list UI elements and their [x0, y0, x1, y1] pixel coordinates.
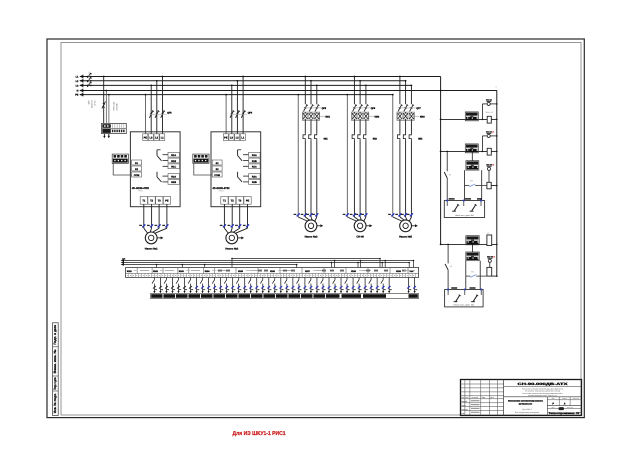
svg-text:Насос вкл. уров. №1: Насос вкл. уров. №1 [455, 214, 475, 217]
svg-text:PE: PE [165, 200, 169, 203]
drive U1 relay outputs R1A R1B R1C [168, 152, 180, 168]
svg-text:Разраб.: Разраб. [461, 400, 468, 403]
wire PE feed to drive U2 [225, 94, 227, 134]
svg-text:КМ1: КМ1 [325, 115, 330, 118]
transformer unit YATP terminal block [102, 123, 127, 133]
device coil K5 rung 5 [480, 267, 497, 277]
svg-text:центральное: центральное [519, 403, 533, 406]
drive U1 control terminals S1 S2 COM [132, 160, 142, 177]
bus L1 [76, 75, 441, 79]
level switch box SL1 (pump on level) [444, 198, 484, 217]
svg-text:COM: COM [134, 174, 140, 177]
motor M2 (pump 2) [226, 232, 238, 244]
wire terminal block to COM drive U1 [113, 163, 131, 175]
svg-text:КК2: КК2 [373, 138, 378, 141]
motor leads branch КМ1 [298, 217, 317, 221]
drive U2 relay contact 1 [238, 150, 249, 167]
terminal block XT9 rung 5 [466, 244, 479, 261]
svg-text:автоматизированный. Принц. эл.: автоматизированный. Принц. эл. [528, 394, 557, 397]
control feed line 1 with arrow [121, 259, 414, 262]
wire L3 feed to drive U1 [150, 85, 152, 134]
svg-text:ХШ3: ХШ3 [179, 270, 185, 273]
svg-text:ХШ6: ХШ6 [270, 270, 276, 273]
svg-text:КМ: КМ [471, 270, 474, 273]
level switch box SL2 (pump off level) [445, 287, 484, 307]
drive U1 model label [132, 187, 150, 193]
terminal block XT7 rung 3 [466, 151, 479, 171]
wire PE drop for motor branch КМ2 [346, 94, 348, 217]
sheet drawing frame (outer border) [47, 39, 584, 418]
svg-text:220/24В: 220/24В [116, 103, 119, 111]
svg-text:JD-GD20-4T22: JD-GD20-4T22 [132, 187, 150, 190]
field wires below terminal strip [152, 278, 417, 294]
svg-text:R1B: R1B [171, 160, 176, 163]
svg-text:R2B: R2B [252, 181, 257, 184]
label motor of branch КМ1 [305, 236, 318, 239]
svg-text:QF7: QF7 [416, 107, 421, 110]
svg-text:Подп. и дата: Подп. и дата [53, 377, 57, 389]
label QF2 rotated [88, 100, 97, 108]
ground arrow at motor of branch КМ2 [366, 224, 372, 227]
svg-text:JD-GD20-4T22: JD-GD20-4T22 [212, 187, 230, 190]
drive U1 input terminals PE L3 L2 L1 [143, 134, 165, 141]
drive U1 output terminals T1 T2 T3 PE [140, 197, 170, 205]
svg-text:QF3: QF3 [167, 111, 172, 114]
svg-text:Технопроммаш ОГ: Технопроммаш ОГ [548, 411, 581, 415]
motor cable wires from drive U2 [224, 204, 247, 233]
svg-text:Р: Р [552, 403, 554, 406]
motor leads branch КМ2 [347, 217, 366, 221]
svg-text:Насос №3: Насос №3 [305, 236, 318, 239]
drive U1 relay contact 2 [157, 172, 168, 182]
label motor of branch КМ2 [356, 236, 364, 239]
circuit breaker QF1 (main switch) [87, 72, 92, 87]
circuit breaker QF5 [304, 104, 327, 111]
phase wires for branch КМ2 [352, 76, 367, 105]
svg-text:QF6: QF6 [371, 107, 376, 110]
wire PE tap to lighting transformer [108, 94, 110, 124]
variable frequency drive U1 [130, 132, 180, 207]
svg-text:ХШ7: ХШ7 [305, 270, 311, 273]
svg-text:Пров.: Пров. [461, 404, 466, 407]
device coil K2 rung 2 [487, 148, 497, 155]
svg-text:ХШ1: ХШ1 [127, 270, 133, 273]
svg-text:R1C: R1C [252, 166, 257, 169]
svg-text:R1B: R1B [252, 160, 257, 163]
motor of branch КМ2 [354, 220, 366, 232]
device coil K4 rung 4 [487, 232, 492, 246]
contactor КМ2 [351, 112, 379, 120]
label motor M2 [225, 248, 238, 251]
wire markers (blue) on motor cable U1 [139, 224, 168, 227]
svg-text:ХШ9: ХШ9 [396, 270, 402, 273]
wire L2 feed to drive U2 [237, 80, 239, 134]
bus L3 [76, 84, 412, 88]
phase wires for branch КМ1 [303, 76, 318, 105]
wire markers (blue) on motor cable U2 [220, 224, 249, 227]
svg-text:Р1: Р1 [449, 173, 451, 176]
svg-text:Насос №2: Насос №2 [225, 248, 238, 251]
svg-text:COM: COM [214, 174, 220, 177]
svg-text:Для ШКУ-1: Для ШКУ-1 [522, 408, 532, 411]
svg-text:Исполнение автоматизированное: Исполнение автоматизированное [508, 400, 544, 403]
svg-text:R1A: R1A [171, 154, 176, 157]
svg-text:Инв. № подл.: Инв. № подл. [53, 393, 57, 413]
circuit breaker QF3 on drive U1 feed [149, 98, 173, 118]
bus N [77, 89, 497, 93]
contactor КМ1 [302, 112, 330, 120]
svg-text:ХШ4: ХШ4 [205, 270, 211, 273]
drive U2 input terminals PE L3 L2 L1 [223, 134, 245, 141]
thermal overload relay КК1 [303, 120, 328, 217]
ladder top rail (N) [440, 90, 497, 92]
device coil K3 rung 3 [482, 182, 498, 189]
title block left grid texts [461, 396, 494, 415]
svg-text:R2A: R2A [252, 175, 257, 178]
wire L1 feed to drive U2 [242, 76, 244, 134]
left margin stamp column (GOST) [53, 323, 59, 416]
label motor of branch КМ3 [399, 236, 412, 239]
svg-text:ЭКМ1-10: ЭКМ1-10 [485, 111, 493, 114]
circuit breaker QF6 [353, 104, 376, 111]
title block lit/mass/scale cells [552, 397, 580, 409]
contactor aux frame KM rung 5 [466, 261, 480, 290]
bus L2 [76, 79, 406, 83]
svg-text:Подп. и дата: Подп. и дата [53, 325, 57, 345]
ground arrow at motor M2 [238, 236, 244, 239]
control terminal block XT2 of drive U2 [193, 154, 209, 163]
phase wires for branch КМ3 [397, 76, 412, 105]
svg-text:R2A: R2A [171, 175, 176, 178]
sheet drawing frame (inner border) [61, 43, 581, 416]
svg-text:КМ: КМ [470, 180, 473, 183]
feed taps into terminal strip [156, 260, 415, 268]
wire markers (blue) branch КМ1 [294, 213, 319, 216]
fuse FU1 rung 1 [482, 99, 498, 120]
svg-text:КМ2: КМ2 [375, 115, 380, 118]
drive U1 relay contact 1 [157, 150, 168, 167]
svg-text:ХШ8: ХШ8 [351, 270, 357, 273]
circuit breaker QF4 on drive U2 feed [229, 98, 253, 118]
drive U2 output terminals T1 T2 T3 PE [221, 197, 251, 205]
circuit breaker QF7 [398, 104, 421, 111]
svg-text:N: N [77, 90, 79, 93]
svg-text:PE: PE [224, 136, 228, 139]
contactor КМ3 [397, 112, 425, 120]
wire L1 tap to lighting transformer [103, 76, 105, 124]
svg-text:Для ИЭ ШКУ1-1 РИС1: Для ИЭ ШКУ1-1 РИС1 [233, 431, 286, 437]
control feed line 4 (middle section) [231, 258, 381, 268]
drive U2 model label [212, 187, 230, 193]
control feed line 3 with arrow [121, 258, 297, 266]
svg-text:У1: У1 [450, 265, 452, 268]
svg-text:Взам. инв. №: Взам. инв. № [53, 349, 57, 373]
motor of branch КМ3 [400, 220, 412, 232]
drive U2 relay outputs R1A R1B R1C [249, 152, 261, 168]
ground arrow at motor of branch КМ1 [317, 224, 323, 227]
contactor aux frame KM rung 3 [465, 170, 482, 200]
device coil K1 rung 1 [485, 111, 497, 123]
terminal strip XT main block [126, 268, 419, 278]
svg-text:У2: У2 [487, 232, 489, 235]
svg-text:PE: PE [144, 136, 148, 139]
ground arrow at motor M1 [157, 236, 163, 239]
svg-text:Насос выкл. уров. №2: Насос выкл. уров. №2 [454, 303, 475, 306]
ladder rung 2 wire [440, 151, 488, 153]
bus PE [75, 93, 393, 97]
wire PE drop for motor branch КМ3 [392, 94, 394, 217]
svg-text:СН-90.000ДВ-АТХ: СН-90.000ДВ-АТХ [518, 382, 569, 386]
motor cable wires from drive U1 [144, 204, 167, 233]
terminal block XT6 on rung 2 [465, 144, 478, 153]
wire L3 feed to drive U2 [231, 85, 233, 134]
svg-text:Насос №5: Насос №5 [399, 236, 412, 239]
drive U2 control terminals S1 S2 COM [212, 160, 222, 177]
variable frequency drive U2 [211, 132, 261, 207]
svg-text:QF5: QF5 [322, 107, 327, 110]
fuse FU4 rung 5 [487, 256, 495, 267]
svg-text:PE: PE [75, 94, 79, 97]
title block (GOST form 1) [461, 380, 582, 416]
ladder left rail (L1 drop) [440, 77, 442, 245]
title block company name [548, 411, 581, 415]
drive U1 relay outputs R2A R2B [168, 174, 180, 185]
svg-text:QF4: QF4 [248, 111, 253, 114]
wire terminal block to COM drive U2 [194, 163, 212, 175]
auxiliary contact SF1 on drop wire [444, 151, 451, 201]
external cable label bar [151, 294, 419, 299]
svg-text:R1A: R1A [252, 154, 257, 157]
svg-text:Насос №1: Насос №1 [145, 248, 158, 251]
ladder rung 1 wire [440, 119, 488, 121]
svg-text:КК3: КК3 [418, 138, 423, 141]
svg-text:х: х [496, 86, 497, 88]
svg-text:PE: PE [246, 200, 250, 203]
motor leads branch КМ3 [393, 217, 412, 221]
svg-text:Утв.: Утв. [461, 412, 465, 415]
drive U2 relay contact 2 [238, 172, 249, 182]
svg-text:Все соединения проводами: Все соединения проводами [515, 411, 539, 414]
label transformer YATP-0.25 rotated [113, 101, 119, 111]
auxiliary contact SF2 on drop wire [445, 244, 452, 290]
control terminal block XT1 of drive U1 [112, 154, 128, 163]
ladder right rail [496, 86, 497, 276]
drive U2 relay outputs R2A R2B [249, 174, 261, 185]
svg-text:ЯТП-0,25: ЯТП-0,25 [113, 101, 116, 111]
svg-text:R1C: R1C [171, 166, 176, 169]
svg-text:R2B: R2B [171, 181, 176, 184]
fuse FU2 rung 2 [482, 131, 498, 152]
svg-text:ХШ5: ХШ5 [238, 270, 244, 273]
wire N tap to lighting transformer [105, 90, 107, 124]
control feed line 2 with arrow [121, 261, 410, 264]
terminal block XT5 on rung 1 [465, 112, 478, 121]
wire markers (blue) branch КМ3 [388, 213, 413, 216]
motor M1 (pump 1) [145, 232, 157, 244]
circuit breaker QF2 (24V supply) [102, 102, 106, 109]
wire L2 feed to drive U1 [156, 80, 158, 134]
svg-text:СН-40: СН-40 [356, 236, 364, 239]
svg-text:1Р 6А: 1Р 6А [94, 100, 97, 106]
svg-text:ХШ2: ХШ2 [153, 270, 159, 273]
wire PE feed to drive U1 [145, 94, 147, 134]
svg-text:ВА47-29: ВА47-29 [91, 101, 94, 108]
title block document number [518, 382, 569, 386]
svg-text:КМ3: КМ3 [420, 115, 425, 118]
title block description text [508, 387, 563, 414]
thermal overload relay КК3 [398, 120, 423, 217]
svg-text:VFD1: VFD1 [138, 189, 144, 192]
svg-text:VFD2: VFD2 [219, 189, 225, 192]
thermal overload relay КК2 [352, 120, 377, 217]
24V output wires with arrows [103, 134, 110, 139]
label motor M1 [145, 248, 158, 251]
motor of branch КМ1 [305, 220, 317, 232]
ladder rung 4 wire [440, 244, 498, 246]
svg-text:КК1: КК1 [324, 138, 329, 141]
wire L1 feed to drive U1 [162, 76, 164, 134]
wire markers (blue) branch КМ2 [343, 213, 368, 216]
terminal block XT8 on rung 4 [466, 236, 479, 245]
ground arrow at motor of branch КМ3 [412, 224, 418, 227]
terminal strip section labels [127, 270, 415, 274]
red annotation note [233, 431, 286, 437]
title block company logo [559, 407, 565, 410]
fuse FU3 rung 3 [486, 164, 494, 182]
svg-text:Н.контр.: Н.контр. [461, 408, 468, 411]
wire PE drop for motor branch КМ1 [297, 94, 299, 217]
